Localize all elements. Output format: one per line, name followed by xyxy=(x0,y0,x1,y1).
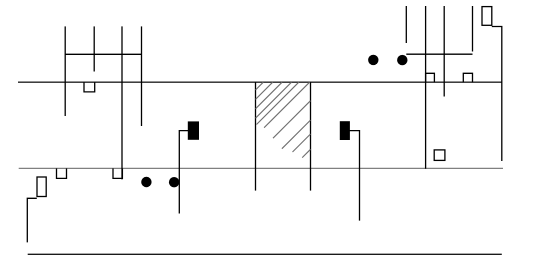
step wire top right xyxy=(492,27,502,162)
left cluster vertical 1 xyxy=(64,26,66,116)
top bus line xyxy=(18,81,502,83)
junction dot top A xyxy=(368,55,378,65)
wire from filled block left xyxy=(179,131,188,214)
junction dot top B xyxy=(397,55,407,65)
junction dot bottom A xyxy=(141,177,151,187)
junction dot bottom B xyxy=(169,177,179,187)
tab square below top bus xyxy=(84,82,95,92)
filled block right xyxy=(340,121,350,140)
left cluster cross wire xyxy=(65,53,141,55)
left cluster vertical 3 xyxy=(121,26,123,179)
floating square right xyxy=(434,150,445,161)
bottom line xyxy=(28,253,502,255)
connector rect bottom left xyxy=(37,177,46,197)
hatched region right edge xyxy=(310,82,312,190)
hatch lines xyxy=(256,82,311,157)
tab square below middle bus right xyxy=(113,168,122,178)
right cluster cross wire xyxy=(406,53,472,55)
connector rect top right xyxy=(482,7,492,26)
wire from filled block right xyxy=(350,131,360,221)
tab square below middle bus left xyxy=(57,168,67,178)
right cluster vertical 2 xyxy=(425,6,427,169)
hatched region left edge xyxy=(255,82,257,190)
step wire bottom left xyxy=(27,198,37,242)
left cluster vertical 2 xyxy=(93,26,95,71)
right cluster vertical 1 xyxy=(405,6,407,43)
right cluster vertical 4 xyxy=(472,6,474,52)
middle bus line (grey) xyxy=(19,167,503,169)
tab square above top bus right xyxy=(463,73,472,82)
left cluster vertical 4 xyxy=(141,26,143,126)
right cluster vertical 3 xyxy=(443,6,445,97)
tab square above top bus left xyxy=(426,73,435,82)
filled block left xyxy=(188,121,199,139)
